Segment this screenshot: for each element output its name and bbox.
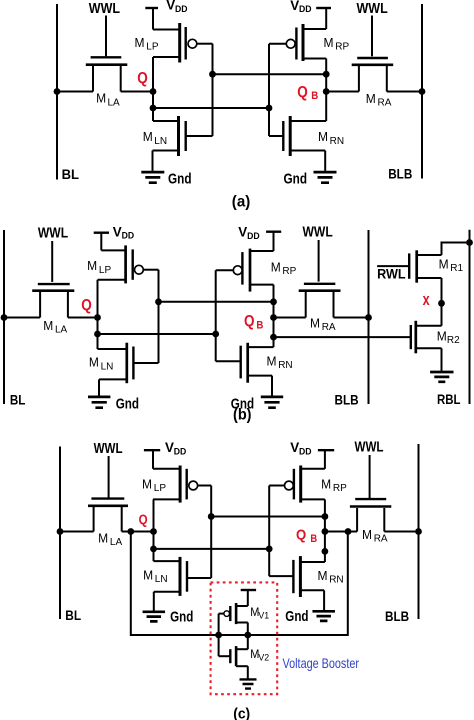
- svg-text:RBL: RBL: [437, 391, 461, 407]
- svg-text:WWL: WWL: [38, 225, 68, 241]
- svg-text:M: M: [318, 129, 328, 144]
- transistor M_V1 (c): [219, 603, 248, 624]
- svg-text:M: M: [87, 258, 97, 273]
- svg-text:BL: BL: [10, 392, 26, 408]
- svg-text:DD: DD: [247, 231, 260, 241]
- wire upper cross-couple gates to Q_B (c): [211, 516, 325, 518]
- label M_LA (b): [43, 318, 67, 336]
- power V_DD tick left (a): [145, 7, 158, 9]
- wire node Q vertical (c): [153, 499, 155, 561]
- wire booster gate vertical (c): [218, 614, 220, 657]
- svg-text:BL: BL: [62, 166, 80, 182]
- node Q_B read junction dot (b): [270, 334, 277, 341]
- svg-text:x: x: [423, 291, 431, 309]
- label M_RA (c): [362, 527, 388, 545]
- label M_RP (a): [324, 35, 350, 53]
- wire node Q vertical (a): [152, 57, 154, 121]
- transistor M_LP (b): [98, 245, 159, 283]
- svg-text:BLB: BLB: [385, 608, 409, 624]
- bit line BL (a): [56, 4, 58, 180]
- svg-text:LA: LA: [108, 97, 121, 108]
- wire left gate vertical (a): [212, 44, 214, 136]
- wire M_R2 source to ground (b): [441, 348, 443, 371]
- transistor M_LA (c): [88, 499, 128, 532]
- ground symbol right (c): [312, 611, 335, 621]
- junction dot right gate (a): [266, 105, 273, 112]
- svg-text:M: M: [142, 476, 152, 491]
- svg-text:M: M: [43, 318, 53, 333]
- label M_V2 (c): [250, 647, 269, 662]
- transistor M_RN (a): [269, 116, 326, 156]
- label M_LP (b): [87, 258, 111, 276]
- svg-text:M: M: [366, 91, 376, 106]
- wire Q_B to M_RA (a): [326, 91, 359, 93]
- wire WWL gate lead left (c): [108, 456, 110, 498]
- wire M_LA to node Q (c): [122, 531, 154, 533]
- wire Q_B to M_R2 gate (b): [274, 336, 411, 338]
- transistor M_RP (c): [269, 466, 325, 503]
- label M_LP (a): [135, 35, 159, 53]
- svg-text:M: M: [143, 129, 153, 144]
- wire node Q_B vertical (b): [273, 285, 275, 348]
- label M_LA (a): [96, 91, 120, 109]
- label V_DD left (c): [165, 440, 187, 456]
- svg-text:Q: Q: [139, 511, 148, 527]
- label M_RN (b): [267, 354, 293, 372]
- ground symbol left (b): [88, 397, 110, 408]
- transistor M_LN (c): [154, 557, 212, 596]
- node BL junction dot (b): [1, 314, 8, 321]
- wire M_RA to BLB (a): [387, 91, 422, 93]
- wire M_LA to node Q (a): [121, 91, 153, 93]
- label M_LP (c): [142, 476, 166, 494]
- svg-text:RA: RA: [378, 97, 392, 108]
- bit line BLB (b): [368, 230, 370, 404]
- ground symbol voltage booster (c): [240, 679, 257, 688]
- node Q_B label (b): [244, 313, 263, 331]
- svg-text:Gnd: Gnd: [285, 608, 308, 625]
- wire V_DD rail right (b): [273, 232, 275, 251]
- svg-text:V: V: [290, 440, 299, 455]
- node BLB junction dot (a): [419, 88, 426, 95]
- label M_LN (a): [143, 129, 167, 147]
- label V_DD right (c): [290, 440, 312, 456]
- node x junction dot (b): [438, 300, 445, 307]
- junction dot lower cross right (c): [266, 546, 273, 553]
- svg-text:B: B: [256, 320, 263, 332]
- wire BL to M_LA (b): [4, 317, 40, 319]
- wire M_V2 source to ground (c): [247, 666, 249, 678]
- svg-text:RP: RP: [333, 483, 347, 494]
- svg-text:(b): (b): [233, 407, 252, 424]
- svg-text:Gnd: Gnd: [168, 170, 192, 187]
- svg-text:M: M: [439, 256, 449, 271]
- svg-text:LP: LP: [99, 265, 112, 276]
- bit line BL (b): [3, 230, 5, 404]
- svg-text:WWL: WWL: [303, 225, 333, 241]
- wire V_DD rail left (c): [152, 450, 154, 469]
- svg-text:DD: DD: [174, 446, 187, 456]
- node BL junction dot (c): [57, 528, 64, 535]
- junction dot upper cross right (c): [322, 513, 329, 520]
- svg-text:RN: RN: [329, 575, 343, 586]
- svg-text:B: B: [311, 90, 318, 102]
- wire lower cross-couple Q to gates (c): [154, 548, 270, 550]
- svg-text:LN: LN: [155, 574, 168, 585]
- node Q lower junction dot (c): [150, 546, 157, 553]
- junction dot upper cross right (a): [323, 71, 330, 78]
- transistor M_RN (c): [269, 556, 325, 597]
- svg-text:M: M: [437, 328, 447, 343]
- transistor M_R1 (b): [409, 250, 441, 282]
- wire WWL gate lead left (a): [105, 16, 107, 57]
- label M_LA (c): [98, 530, 122, 548]
- svg-text:M: M: [98, 530, 108, 545]
- wire node x vertical (b): [441, 278, 443, 326]
- node Q_B junction dot (a): [323, 88, 330, 95]
- svg-text:DD: DD: [122, 231, 135, 241]
- transistor M_LA (a): [86, 57, 128, 91]
- transistor M_RA (a): [352, 58, 394, 92]
- wire booster drain vertical (c): [247, 623, 249, 650]
- wire M_R1 drain to RBL (b): [442, 243, 470, 256]
- wire left gate vertical (b): [158, 270, 160, 363]
- node RBL junction dot (b): [466, 239, 473, 246]
- transistor M_RA (b): [299, 284, 341, 318]
- wire RWL gate lead overline (b): [377, 265, 409, 267]
- transistor M_RP (a): [269, 24, 326, 61]
- label M_RA (b): [310, 315, 336, 333]
- junction dot booster tap left (c): [127, 528, 134, 535]
- wire WWL gate lead right (b): [318, 240, 320, 282]
- label V_DD right (b): [238, 225, 260, 241]
- wire M_RA to BLB (b): [334, 317, 369, 319]
- svg-text:DD: DD: [175, 4, 188, 14]
- node Q_B lower junction dot (c): [322, 548, 329, 555]
- svg-text:M: M: [135, 35, 145, 50]
- label M_RA (a): [366, 91, 392, 109]
- bit line BLB (a): [421, 4, 423, 179]
- wire M_LN source to ground (c): [153, 592, 155, 611]
- bit line BL (c): [59, 447, 61, 620]
- svg-text:Q: Q: [297, 84, 308, 101]
- wire lower cross-couple Q to gates (a): [153, 107, 269, 109]
- wire M_RA to BLB (c): [384, 531, 418, 533]
- label M_RN (c): [318, 568, 344, 586]
- wire node Q vertical (b): [97, 280, 99, 349]
- node Q_B junction dot (b): [270, 314, 277, 321]
- svg-text:LP: LP: [146, 41, 159, 52]
- svg-text:WWL: WWL: [357, 1, 388, 17]
- power V_DD tick right (a): [316, 7, 331, 9]
- svg-text:V: V: [290, 0, 299, 13]
- transistor M_RA (c): [350, 499, 391, 531]
- svg-text:RA: RA: [374, 534, 388, 545]
- junction dot upper cross right (b): [270, 298, 277, 305]
- svg-text:Q: Q: [81, 297, 92, 314]
- power terminal tick M_V1 (c): [241, 589, 256, 591]
- label V_DD left (b): [113, 225, 135, 241]
- svg-text:BLB: BLB: [335, 392, 359, 408]
- wire V_DD rail right (c): [324, 450, 326, 469]
- svg-text:M: M: [318, 568, 328, 583]
- voltage booster dashed box (c): [211, 582, 278, 694]
- read bit line RBL (b): [469, 230, 471, 404]
- svg-text:DD: DD: [299, 4, 312, 14]
- svg-text:RP: RP: [282, 266, 296, 277]
- svg-text:M: M: [362, 527, 372, 542]
- svg-text:(c): (c): [233, 707, 250, 720]
- svg-text:M: M: [324, 35, 334, 50]
- wire right gate vertical (c): [268, 486, 270, 577]
- node Q lower junction dot (a): [150, 105, 157, 112]
- svg-text:RP: RP: [335, 42, 349, 53]
- label M_LN (b): [89, 355, 113, 373]
- transistor M_V2 (c): [219, 646, 248, 666]
- label M_LN (c): [143, 568, 167, 586]
- wire BL to M_LA (c): [60, 531, 94, 533]
- wire upper cross-couple gates to Q_B (b): [159, 301, 274, 303]
- node Q_B label (c): [296, 527, 317, 545]
- junction dot booster tap right (c): [345, 528, 352, 535]
- ground symbol left (a): [141, 172, 164, 183]
- transistor M_LP (c): [153, 466, 211, 503]
- svg-text:Gnd: Gnd: [170, 608, 193, 625]
- svg-text:M: M: [267, 354, 277, 369]
- svg-text:WWL: WWL: [89, 1, 120, 17]
- svg-text:LN: LN: [101, 361, 114, 372]
- transistor M_R2 (b): [411, 321, 442, 354]
- svg-text:RA: RA: [322, 322, 336, 333]
- wire V_DD rail left (a): [152, 8, 154, 30]
- junction dot left gate (b): [155, 298, 162, 305]
- svg-text:B: B: [310, 533, 317, 545]
- junction dot booster gates (c): [215, 632, 222, 639]
- label M_RP (b): [271, 260, 297, 278]
- label V_DD right (a): [290, 0, 312, 14]
- transistor M_LN (a): [153, 116, 213, 156]
- svg-text:Q: Q: [296, 527, 306, 544]
- junction dot left gate (a): [209, 71, 216, 78]
- node Q_B label (a): [297, 84, 318, 102]
- junction dot booster drains (c): [244, 632, 251, 639]
- label M_R2 (b): [437, 328, 460, 346]
- wire V_DD rail right (a): [325, 8, 327, 29]
- svg-text:LP: LP: [154, 483, 167, 494]
- wire right gate vertical (b): [215, 270, 217, 361]
- node Q lower junction dot (b): [94, 331, 101, 338]
- wire lower cross-couple Q to gates (b): [98, 333, 216, 335]
- node Q_B junction dot (c): [322, 528, 329, 535]
- wire BL to M_LA (a): [57, 91, 93, 93]
- wire M_RN source to ground (b): [271, 376, 273, 396]
- wire right gate vertical (a): [268, 44, 270, 136]
- ground symbol read port (b): [430, 372, 453, 382]
- node Q junction dot (b): [94, 314, 101, 321]
- svg-text:DD: DD: [299, 446, 312, 456]
- ground symbol right (b): [261, 397, 283, 408]
- wire M_LN source to ground (b): [98, 379, 100, 395]
- transistor M_RP (b): [216, 249, 274, 292]
- wire voltage booster loop (c): [131, 532, 348, 636]
- svg-text:M: M: [310, 315, 320, 330]
- power V_DD tick left (c): [144, 449, 160, 451]
- wire node Q_B vertical (a): [325, 59, 327, 122]
- wire upper cross-couple gates to Q_B (a): [213, 73, 327, 75]
- svg-text:LA: LA: [110, 537, 123, 548]
- svg-text:RWL: RWL: [377, 267, 406, 282]
- power V_DD tick left (b): [94, 231, 109, 233]
- transistor M_RN (b): [216, 343, 274, 383]
- power V_DD tick right (b): [266, 230, 281, 232]
- svg-text:M: M: [143, 568, 153, 583]
- label M_V1 (c): [250, 605, 269, 620]
- wire V_DD rail left (b): [100, 233, 102, 251]
- svg-text:R2: R2: [447, 335, 460, 346]
- svg-text:V: V: [113, 225, 122, 240]
- junction dot lower cross right (b): [212, 331, 219, 338]
- wire M_LA to node Q (b): [68, 317, 98, 319]
- node BL junction dot (a): [54, 88, 61, 95]
- svg-text:RN: RN: [330, 136, 344, 147]
- wire WWL gate lead left (b): [51, 241, 53, 282]
- svg-text:BL: BL: [65, 607, 81, 623]
- wire M_RN source to ground (a): [324, 151, 326, 171]
- wire WWL gate lead right (c): [369, 455, 371, 498]
- svg-text:M: M: [96, 91, 106, 106]
- svg-text:Gnd: Gnd: [284, 170, 308, 187]
- svg-text:WWL: WWL: [355, 440, 384, 456]
- svg-text:Q: Q: [137, 70, 148, 87]
- svg-text:(a): (a): [232, 193, 251, 210]
- svg-text:V2: V2: [258, 652, 269, 662]
- svg-text:RN: RN: [278, 360, 292, 371]
- node BLB junction dot (c): [415, 528, 422, 535]
- svg-text:BLB: BLB: [388, 165, 412, 181]
- svg-text:R1: R1: [450, 263, 463, 274]
- svg-text:LN: LN: [154, 136, 167, 147]
- junction dot left gate (c): [208, 513, 215, 520]
- wire M_LN source to ground (a): [152, 151, 154, 171]
- svg-text:V: V: [165, 440, 174, 455]
- svg-text:M: M: [321, 476, 331, 491]
- label M_RN (a): [318, 129, 344, 147]
- svg-text:LA: LA: [55, 325, 68, 336]
- svg-text:V: V: [166, 0, 175, 13]
- svg-text:Q: Q: [244, 313, 255, 330]
- wire Q_B to M_RA (b): [274, 317, 306, 319]
- node Q junction dot (c): [150, 528, 157, 535]
- svg-text:WWL: WWL: [94, 441, 123, 457]
- label M_RP (c): [321, 476, 347, 494]
- transistor M_LA (b): [32, 284, 74, 317]
- svg-text:M: M: [271, 260, 281, 275]
- node BLB junction dot (b): [365, 314, 372, 321]
- bit line BLB (c): [418, 444, 420, 619]
- svg-text:Voltage Booster: Voltage Booster: [283, 655, 360, 671]
- wire Q_B to M_RA (c): [325, 531, 357, 533]
- ground symbol left (c): [143, 612, 166, 622]
- wire M_RN source to ground (c): [323, 590, 325, 610]
- wire WWL gate lead right (a): [371, 16, 373, 57]
- node Q junction dot (a): [150, 88, 157, 95]
- label M_R1 (b): [439, 256, 464, 274]
- svg-text:Gnd: Gnd: [116, 396, 139, 413]
- wire node Q_B vertical (c): [324, 499, 326, 562]
- transistor M_LP (a): [153, 23, 213, 63]
- label V_DD left (a): [166, 0, 188, 14]
- svg-text:V1: V1: [258, 610, 269, 620]
- wire left gate vertical (c): [210, 486, 212, 579]
- svg-text:M: M: [89, 355, 99, 370]
- power V_DD tick right (c): [318, 449, 334, 451]
- transistor M_LN (b): [98, 343, 159, 384]
- svg-text:V: V: [238, 225, 247, 240]
- ground symbol right (a): [314, 172, 337, 183]
- wire M_V1 source lead (c): [247, 590, 249, 606]
